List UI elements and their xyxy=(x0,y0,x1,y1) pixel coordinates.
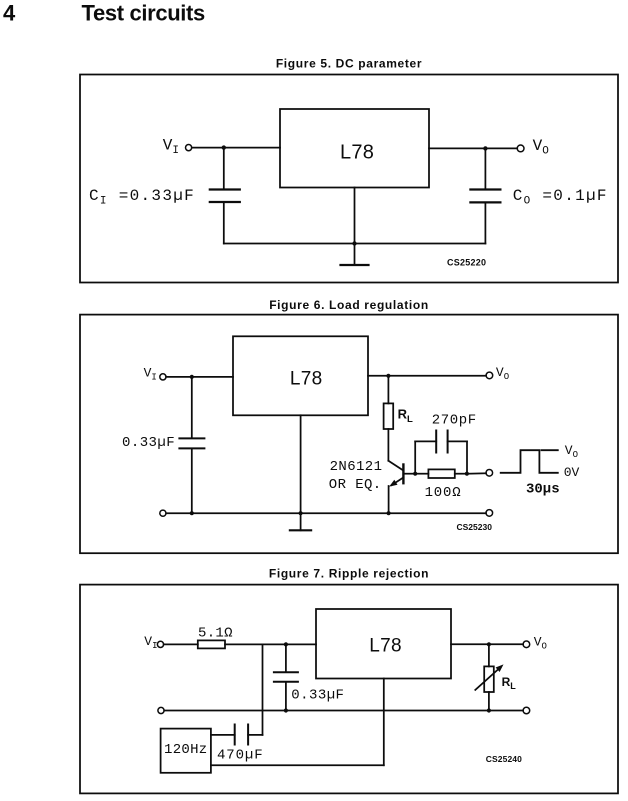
ground xyxy=(341,244,369,266)
wire ground lead from regulator xyxy=(354,188,356,244)
label L78 fig6 xyxy=(290,368,323,389)
wire input xyxy=(192,147,280,149)
label C1 value xyxy=(89,187,195,208)
resistor 100ohm body xyxy=(428,469,454,478)
label CS25240 xyxy=(486,754,522,764)
capacitor 0.33uF fig7 lead top xyxy=(285,644,287,671)
svg-text:Figure 7. Ripple rejection: Figure 7. Ripple rejection xyxy=(269,566,429,580)
pulse terminal fig6 xyxy=(486,470,493,477)
output terminal xyxy=(517,145,524,152)
wire generator riser fig7 xyxy=(262,644,264,735)
svg-text:CO =0.1µF: CO =0.1µF xyxy=(513,187,608,208)
resistor RL fig7 lead bottom xyxy=(488,692,490,711)
transistor Q1 collector xyxy=(388,461,403,471)
junction ground node xyxy=(352,241,356,245)
capacitor 470uF plates xyxy=(235,725,248,745)
capacitor 0.33uF fig6 lead top xyxy=(191,377,193,438)
junction input node xyxy=(222,145,226,149)
svg-text:100Ω: 100Ω xyxy=(425,485,462,501)
svg-text:VI: VI xyxy=(163,137,179,158)
svg-text:VI: VI xyxy=(144,366,157,383)
capacitor CO lead top xyxy=(484,148,486,188)
svg-text:Figure 5. DC parameter: Figure 5. DC parameter xyxy=(276,57,422,71)
junction output node xyxy=(483,146,487,150)
junction rail gnd fig6 xyxy=(299,511,303,515)
generator 120Hz box xyxy=(161,729,211,773)
wire regulator ground lead fig6 xyxy=(300,415,302,513)
junction rail emitter fig6 xyxy=(387,511,391,515)
pulse VO level line xyxy=(542,449,558,451)
label L78 xyxy=(340,141,374,163)
label 0.33uF fig6 xyxy=(122,435,175,451)
label RL fig7 xyxy=(502,675,517,691)
svg-text:5.1Ω: 5.1Ω xyxy=(198,625,233,641)
capacitor 270pF plates xyxy=(436,431,447,453)
wire output fig6 xyxy=(368,375,486,377)
label 0V pulse xyxy=(564,465,580,480)
label VO pulse xyxy=(565,443,578,460)
junction output node fig7 xyxy=(487,642,491,646)
resistor RL fig7 lead top xyxy=(488,644,490,666)
capacitor 0.33uF fig6 lead bottom xyxy=(191,449,193,513)
svg-text:0.33µF: 0.33µF xyxy=(122,435,175,451)
wire output xyxy=(429,147,517,149)
svg-text:120Hz: 120Hz xyxy=(164,742,208,758)
svg-text:CI =0.33µF: CI =0.33µF xyxy=(89,187,195,208)
label VO xyxy=(533,137,550,158)
caption Figure 7 xyxy=(269,566,429,580)
svg-text:470µF: 470µF xyxy=(217,747,264,763)
svg-text:CS25230: CS25230 xyxy=(457,522,493,532)
figure 7 border frame xyxy=(80,585,618,794)
ground fig6 xyxy=(290,513,311,530)
label 100ohm xyxy=(425,485,462,501)
label 470uF xyxy=(217,747,264,763)
capacitor C1 lead top xyxy=(223,148,225,189)
figure 6 border frame xyxy=(80,315,618,554)
svg-text:OR EQ.: OR EQ. xyxy=(329,477,382,493)
regulator U1 L78 box fig6 xyxy=(233,336,368,415)
svg-text:L78: L78 xyxy=(340,141,374,163)
label VI fig6 xyxy=(144,366,157,383)
label VO fig6 xyxy=(496,365,509,382)
section title Test circuits xyxy=(82,1,206,26)
label 0.33uF fig7 xyxy=(291,687,344,703)
resistor 5.1ohm body xyxy=(198,640,225,648)
svg-text:L78: L78 xyxy=(369,635,402,656)
wire ground rail fig7 xyxy=(164,710,523,712)
label VI fig7 xyxy=(144,634,157,651)
wire cap to riser fig7 xyxy=(248,734,262,736)
caption Figure 6 xyxy=(269,298,429,312)
label 30us xyxy=(526,481,560,497)
resistor RL lead bottom fig6 xyxy=(387,429,389,461)
wire to pulse terminal xyxy=(467,472,486,474)
svg-text:RL: RL xyxy=(502,675,517,691)
capacitor 0.33uF fig7 lead bottom xyxy=(285,683,287,711)
label 120Hz xyxy=(164,742,208,758)
bottom terminal left fig7 xyxy=(158,707,164,713)
transistor Q1 base bar xyxy=(402,465,404,484)
svg-text:VO: VO xyxy=(534,635,547,652)
pulse waveform xyxy=(501,450,558,473)
transistor Q1 emitter wire xyxy=(388,486,390,513)
wire ground rail fig6 xyxy=(166,512,486,514)
wire from resistor 100ohm xyxy=(455,473,467,475)
input terminal fig7 xyxy=(157,641,163,647)
capacitor CO lead bottom xyxy=(484,204,486,244)
svg-text:30µs: 30µs xyxy=(526,481,560,497)
junction input cap node fig7 xyxy=(284,642,288,646)
label 2N6121 xyxy=(330,459,383,475)
label 5.1ohm xyxy=(198,625,233,641)
label CS25230 xyxy=(457,522,493,532)
label VI xyxy=(163,137,179,158)
junction rail cap fig6 xyxy=(190,511,194,515)
svg-text:VO: VO xyxy=(533,137,550,158)
wire regulator ground vertical fig7 xyxy=(383,679,385,766)
junction rail cap fig7 xyxy=(284,708,288,712)
svg-text:VI: VI xyxy=(144,634,157,651)
svg-text:270pF: 270pF xyxy=(432,413,477,429)
junction base node fig6 xyxy=(413,472,417,476)
caption Figure 5 xyxy=(276,57,422,71)
output terminal VO fig6 xyxy=(486,372,493,379)
figure 5 border frame xyxy=(80,75,618,283)
section number 4 xyxy=(3,1,16,26)
bottom terminal right fig6 xyxy=(486,510,493,517)
wire generator to cap fig7 xyxy=(211,734,235,736)
output terminal VO fig7 xyxy=(523,641,530,648)
wire ground rail xyxy=(224,243,486,245)
label CO value xyxy=(513,187,608,208)
capacitor C1 plates xyxy=(210,190,240,203)
label L78 fig7 xyxy=(369,635,402,656)
svg-text:0V: 0V xyxy=(564,465,580,480)
input terminal fig6 xyxy=(160,374,166,380)
wire output fig7 xyxy=(451,643,523,645)
capacitor 0.33uF fig7 plates xyxy=(274,672,298,682)
bottom terminal right fig7 xyxy=(523,707,530,714)
junction input node fig6 xyxy=(190,375,194,379)
svg-text:VO: VO xyxy=(496,365,509,382)
label CS25220 xyxy=(447,258,486,268)
capacitor CO plates xyxy=(470,190,500,203)
wire input fig7 xyxy=(164,643,198,645)
svg-text:Figure 6. Load regulation: Figure 6. Load regulation xyxy=(269,298,429,312)
label RL fig6 xyxy=(398,407,413,426)
capacitor 270pF left lead xyxy=(415,441,436,473)
bottom terminal left fig6 xyxy=(160,510,166,516)
input terminal xyxy=(186,145,192,151)
svg-text:2N6121: 2N6121 xyxy=(330,459,383,475)
resistor RL lead top fig6 xyxy=(387,376,389,404)
resistor RL body fig6 xyxy=(384,403,394,429)
wire generator return fig7 xyxy=(211,764,384,766)
resistor RL fig7 body xyxy=(484,666,494,692)
capacitor 270pF right lead xyxy=(448,441,467,473)
capacitor C1 lead bottom xyxy=(223,203,225,243)
label OR EQ. xyxy=(329,477,382,493)
svg-text:L78: L78 xyxy=(290,368,323,389)
transistor Q1 emitter xyxy=(389,478,403,487)
wire input to regulator fig7 xyxy=(225,643,316,645)
wire input fig6 xyxy=(166,376,233,378)
svg-text:RL: RL xyxy=(398,407,413,426)
wire to resistor 100ohm xyxy=(415,473,428,475)
label 270pF xyxy=(432,413,477,429)
wire base fig6 xyxy=(405,473,416,475)
junction rail RL fig7 xyxy=(487,708,491,712)
regulator U1 L78 box xyxy=(280,109,429,188)
capacitor 0.33uF fig6 plates xyxy=(179,438,204,448)
svg-text:CS25240: CS25240 xyxy=(486,754,522,764)
label VO fig7 xyxy=(534,635,547,652)
resistor RL fig7 arrow xyxy=(475,664,503,690)
svg-text:0.33µF: 0.33µF xyxy=(291,687,344,703)
svg-text:VO: VO xyxy=(565,443,578,460)
svg-text:CS25220: CS25220 xyxy=(447,258,486,268)
junction right node fig6 xyxy=(465,472,469,476)
svg-text:Test circuits: Test circuits xyxy=(82,1,206,26)
junction output node fig6 xyxy=(386,374,390,378)
regulator U1 L78 box fig7 xyxy=(316,609,451,679)
svg-text:4: 4 xyxy=(3,1,16,26)
